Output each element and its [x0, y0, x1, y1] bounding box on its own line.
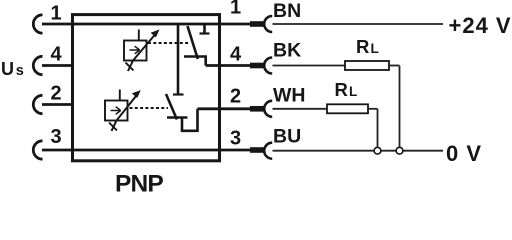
svg-text:WH: WH: [273, 85, 306, 107]
svg-text:R: R: [335, 79, 348, 100]
supply label +24 V: [449, 13, 512, 38]
wire pin2 right from switch S2: [198, 107, 251, 110]
plug socket arc 4 right: [264, 58, 272, 74]
plug pin bar 1 right: [250, 21, 264, 27]
wire BU to 0V: [273, 150, 444, 152]
sensor B1 adjust arrow shaft: [128, 34, 156, 71]
socket contact pin 4 left: [33, 56, 42, 74]
load resistor RL2 body: [327, 104, 368, 113]
plug pin bar 2 right: [250, 106, 264, 112]
load resistor RL2 label: [335, 79, 358, 100]
pin number 3 right: [230, 128, 241, 150]
wire switch S1 output down: [204, 57, 207, 66]
switch S1 blade T-bar: [184, 55, 207, 58]
wire RL2 to drop: [368, 108, 378, 110]
wire RL1 to drop: [389, 65, 400, 67]
sensor B2 tail tick: [109, 123, 117, 131]
svg-text:4: 4: [50, 44, 62, 66]
svg-text:s: s: [16, 63, 24, 79]
supply label 0 V: [446, 141, 482, 166]
sensor element B1 body: [124, 41, 147, 61]
pin number 4 left: [50, 44, 62, 66]
svg-text:1: 1: [230, 0, 241, 19]
wire BN to +24V: [273, 23, 444, 25]
wire label BU: [273, 126, 301, 148]
svg-text:L: L: [371, 41, 379, 56]
svg-text:+24 V: +24 V: [449, 13, 512, 38]
sensor element B2 body: [105, 101, 128, 121]
svg-text:3: 3: [50, 126, 61, 148]
pin number 2 left: [50, 83, 61, 105]
svg-text:0 V: 0 V: [446, 141, 482, 166]
wire label WH: [273, 85, 306, 107]
switch S1 fixed contact bar: [200, 32, 210, 34]
supply voltage label Us: [1, 59, 24, 79]
dashed actuation link sensor B2 to switch S2: [130, 107, 169, 109]
svg-text:2: 2: [230, 86, 241, 108]
pin number 1 right: [230, 0, 241, 19]
wire WH to load RL2: [273, 108, 328, 110]
switch S1 moving blade: [188, 26, 198, 59]
sensor B1 top stub: [138, 30, 140, 41]
switch S2 fixed contact bar: [173, 93, 184, 95]
svg-text:1: 1: [50, 3, 61, 25]
svg-text:PNP: PNP: [115, 171, 163, 195]
wire pin2 left stub: [42, 103, 74, 106]
socket contact pin 2 left: [33, 95, 42, 113]
pin number 3 left: [50, 126, 61, 148]
switch S1 fixed contact stub: [203, 24, 206, 34]
junction ring WH drop: [374, 147, 381, 154]
sensor B1 adjust arrow head: [151, 30, 160, 38]
wire pin3 0V through-line: [42, 149, 250, 152]
sensor B2 adjust arrow shaft: [112, 95, 138, 131]
load resistor RL1 label: [356, 36, 379, 57]
plug socket arc 1 right: [264, 16, 272, 32]
svg-text:BK: BK: [273, 40, 301, 62]
switch S2 blade T-bar: [167, 116, 188, 119]
wire pin4 right from switch S1: [206, 64, 250, 67]
svg-text:U: U: [1, 59, 14, 79]
pin number 1 left: [50, 3, 61, 25]
socket contact pin 3 left: [33, 141, 42, 159]
wire BK to load RL1: [273, 65, 346, 67]
junction ring BK drop: [396, 147, 403, 154]
svg-text:3: 3: [230, 128, 241, 150]
svg-text:2: 2: [50, 83, 61, 105]
load resistor RL1 body: [345, 61, 389, 70]
wire label BK: [273, 40, 301, 62]
wire label BN: [273, 0, 301, 22]
plug socket arc 3 right: [264, 143, 272, 159]
plug socket arc 2 right: [264, 101, 272, 117]
wire vertical rail to switch S2: [177, 24, 180, 95]
svg-text:BN: BN: [273, 0, 301, 22]
svg-text:L: L: [349, 84, 357, 99]
plug pin bar 4 right: [250, 63, 264, 69]
pin number 2 right: [230, 86, 241, 108]
device type label PNP: [115, 171, 163, 198]
svg-text:R: R: [356, 36, 369, 57]
sensor B2 top stub: [119, 90, 121, 101]
wire pin1 left to right rail +24V: [42, 23, 250, 26]
sensor B2 adjust arrow head: [132, 90, 141, 98]
socket contact pin 1 left: [33, 15, 42, 33]
wire switch S2 output step: [182, 109, 198, 131]
svg-text:BU: BU: [273, 126, 301, 148]
wire drop WH to 0V: [377, 109, 379, 147]
device box PNP sensor: [73, 15, 220, 161]
svg-text:4: 4: [230, 44, 242, 66]
sensor B2 inner arrow: [111, 107, 121, 115]
sensor B1 inner arrow: [130, 46, 140, 54]
wire pin4 left stub: [42, 64, 74, 67]
sensor B1 tail tick: [126, 63, 134, 71]
wire drop BK to 0V: [399, 66, 401, 147]
dashed actuation link sensor B1 to switch S1: [148, 42, 190, 44]
plug pin bar 3 right: [250, 147, 264, 153]
pin number 4 right: [230, 44, 242, 66]
switch S2 moving blade: [166, 94, 177, 120]
